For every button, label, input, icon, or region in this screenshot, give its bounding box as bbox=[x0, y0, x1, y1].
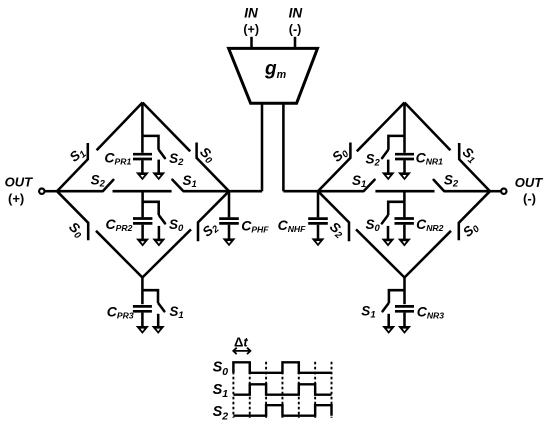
wire right diamond lower-left edge lower segment bbox=[356, 229, 405, 277]
capacitor CPHF lower wire bbox=[228, 225, 231, 239]
switch blade S1 middle-right bbox=[172, 180, 183, 191]
wire IN- lead bbox=[294, 37, 297, 49]
svg-text:OUT: OUT bbox=[5, 175, 33, 190]
capacitor CPR2 plates bbox=[133, 219, 152, 224]
svg-text:(+): (+) bbox=[8, 191, 24, 206]
svg-text:(-): (-) bbox=[523, 191, 536, 206]
wire left diamond lower-left edge lower segment bbox=[96, 231, 142, 278]
capacitor CNHF wire bbox=[317, 191, 320, 217]
wire left diamond middle center segment bbox=[113, 190, 172, 193]
wire gm output left lead bbox=[261, 103, 264, 191]
wire right diamond middle right segment bbox=[444, 190, 490, 193]
wire left diamond lower-right edge upper segment with switch bar bbox=[198, 191, 229, 241]
ground under CPR3 bbox=[136, 326, 149, 334]
wire CPR1 switch lower bbox=[157, 160, 160, 173]
ground under CPR1 switch bbox=[152, 172, 165, 180]
op-amp gm trapezoid bbox=[229, 48, 318, 103]
wire gm-right to right diamond bbox=[283, 190, 317, 193]
ground under CNR3 switch bbox=[382, 326, 395, 334]
capacitor CPHF wire bbox=[228, 191, 231, 217]
arrow delta t span bbox=[233, 348, 250, 354]
capacitor CPR2 wire from middle bbox=[141, 191, 144, 217]
ground under CPHF bbox=[222, 238, 235, 246]
wire CNR3 switch branch bbox=[389, 290, 405, 303]
switch blade S0 at CPR2 bbox=[159, 216, 165, 224]
wire right diamond middle left segment bbox=[318, 190, 364, 193]
ground under CPR2 switch bbox=[152, 239, 165, 247]
ground under CPR1 bbox=[136, 172, 149, 180]
waveform S2 bbox=[233, 405, 331, 416]
switch blade S1 middle-left right diamond bbox=[364, 180, 375, 191]
wire right diamond lower-left edge upper segment with switch bar bbox=[318, 191, 349, 241]
capacitor CNR1 wire from top vertex bbox=[403, 103, 406, 153]
terminal OUT- circle bbox=[501, 189, 506, 194]
capacitor CNR3 wire from bottom vertex bbox=[403, 278, 406, 305]
wire CPR1 switch branch bbox=[142, 136, 158, 150]
switch blade S0 at CNR2 bbox=[382, 216, 388, 224]
wire right diamond upper-left edge upper segment bbox=[357, 103, 405, 152]
wire CPR2 switch lower bbox=[158, 226, 161, 239]
capacitor CNR2 lower wire bbox=[403, 225, 406, 240]
capacitor CNR1 lower wire bbox=[403, 160, 406, 173]
switch blade S2 middle-left bbox=[103, 180, 113, 191]
wire right diamond upper-left edge lower segment with switch bar bbox=[318, 143, 350, 192]
svg-text:IN: IN bbox=[289, 6, 303, 21]
capacitor CPR1 lower wire bbox=[141, 160, 144, 173]
timing grid dotted lines bbox=[233, 362, 331, 418]
wire left diamond upper-left edge upper segment bbox=[97, 103, 143, 151]
ground under CPR3 switch bbox=[152, 326, 165, 334]
wire CNR1 switch branch bbox=[388, 136, 404, 150]
wire left diamond middle right segment bbox=[183, 190, 229, 193]
ground under CNR2 bbox=[398, 239, 411, 247]
wire IN+ lead bbox=[250, 37, 253, 49]
ground under CNR3 bbox=[398, 326, 411, 334]
capacitor CNR3 lower wire bbox=[403, 313, 406, 327]
wire right diamond upper-right edge lower segment with switch bar bbox=[459, 143, 490, 191]
capacitor CPR3 wire from bottom vertex bbox=[141, 278, 144, 305]
wire CNR2 switch lower bbox=[387, 226, 390, 239]
waveform S0 bbox=[233, 362, 331, 373]
terminal OUT+ circle bbox=[39, 189, 44, 194]
switch blade S2 at CNR1 bbox=[382, 150, 388, 158]
ground under CNR1 switch bbox=[382, 172, 395, 180]
switch blade S1 at CPR3 bbox=[159, 304, 165, 312]
wire left diamond lower-left edge upper segment with switch bar bbox=[57, 191, 88, 240]
svg-text:(-): (-) bbox=[289, 23, 302, 37]
wire gm-left to left diamond bbox=[229, 190, 262, 193]
wire CNR1 switch lower bbox=[387, 160, 390, 173]
wire right diamond upper-right edge upper segment bbox=[405, 103, 451, 151]
wire right diamond to OUT- bbox=[490, 190, 501, 193]
wire CPR2 switch branch bbox=[143, 202, 159, 215]
capacitor CPR2 lower wire bbox=[141, 225, 144, 240]
wire CPR3 switch branch bbox=[142, 290, 158, 303]
wire CNR2 switch branch bbox=[388, 202, 404, 215]
wire OUT+ to diamond bbox=[45, 190, 58, 193]
switch blade S2 at CPR1 bbox=[159, 150, 165, 158]
ground under CNR1 bbox=[398, 172, 411, 180]
wire gm output right lead bbox=[282, 103, 285, 191]
ground under CPR2 bbox=[136, 239, 149, 247]
capacitor CNR1 plates bbox=[395, 154, 414, 159]
wire CNR3 switch lower bbox=[387, 314, 390, 327]
capacitor CPHF plates bbox=[219, 219, 239, 224]
wire right diamond lower-right edge lower segment bbox=[405, 231, 452, 278]
capacitor CPR1 wire from top vertex bbox=[141, 103, 144, 153]
wire left diamond upper-right edge upper segment bbox=[143, 103, 191, 152]
waveform S1 bbox=[233, 384, 331, 394]
svg-text:(+): (+) bbox=[243, 23, 259, 37]
capacitor CPR1 plates bbox=[133, 154, 152, 159]
wire right diamond middle center segment bbox=[375, 190, 434, 193]
ground under CNR2 switch bbox=[381, 239, 394, 247]
switch blade S1 at CNR3 bbox=[383, 304, 389, 312]
capacitor CPR3 plates bbox=[133, 306, 152, 311]
svg-text:OUT: OUT bbox=[515, 175, 544, 190]
capacitor CNR3 plates bbox=[395, 306, 414, 311]
capacitor CNHF lower wire bbox=[317, 225, 320, 239]
wire left diamond upper-right edge lower segment with switch bar bbox=[197, 143, 229, 192]
wire CPR3 switch lower bbox=[157, 314, 160, 327]
wire left diamond middle left segment bbox=[57, 190, 103, 193]
capacitor CNR2 wire from middle bbox=[403, 191, 406, 217]
wire left diamond lower-right edge lower segment bbox=[142, 229, 191, 277]
ground under CNHF bbox=[311, 238, 324, 246]
capacitor CNHF plates bbox=[308, 219, 328, 224]
capacitor CNR2 plates bbox=[395, 219, 414, 224]
wire left diamond upper-left edge lower segment with switch bar bbox=[57, 143, 88, 191]
svg-text:IN: IN bbox=[244, 6, 258, 21]
switch blade S2 middle-right right diamond bbox=[434, 180, 444, 191]
capacitor CPR3 lower wire bbox=[141, 313, 144, 327]
wire right diamond lower-right edge upper segment with switch bar bbox=[459, 191, 490, 240]
